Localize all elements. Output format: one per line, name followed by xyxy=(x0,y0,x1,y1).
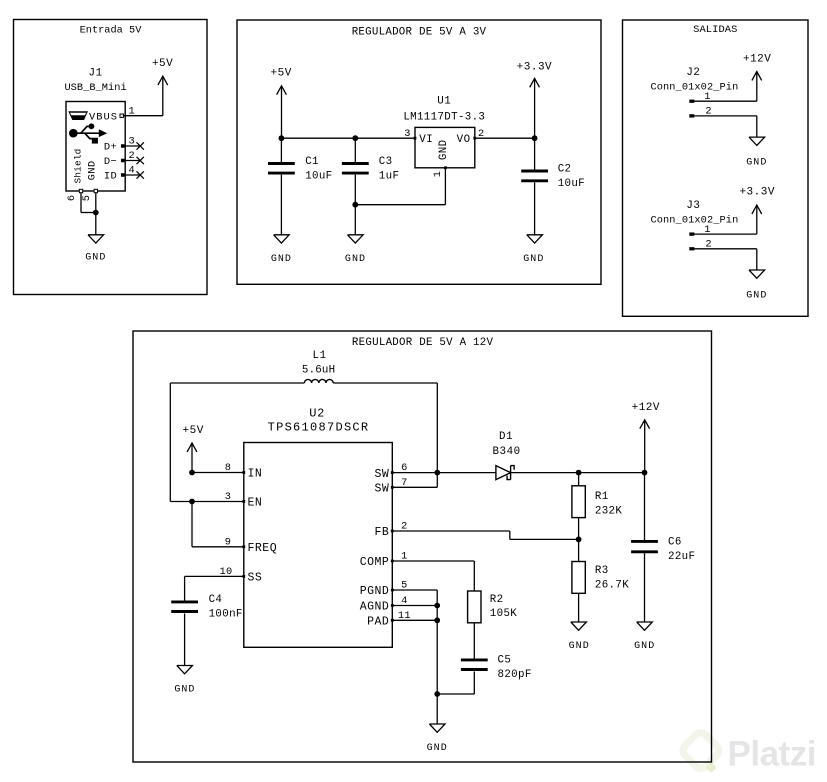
svg-text:J2: J2 xyxy=(686,67,700,79)
svg-text:+12V: +12V xyxy=(632,402,660,414)
svg-text:IN: IN xyxy=(248,468,263,481)
svg-text:GND: GND xyxy=(523,254,544,265)
svg-text:C1: C1 xyxy=(305,156,319,168)
svg-text:+12V: +12V xyxy=(743,53,771,65)
svg-text:Platzi: Platzi xyxy=(728,734,816,773)
svg-text:PGND: PGND xyxy=(360,585,390,598)
svg-text:U2: U2 xyxy=(309,407,325,421)
svg-text:R2: R2 xyxy=(490,594,504,606)
svg-text:GND: GND xyxy=(634,641,655,652)
svg-text:GND: GND xyxy=(345,254,366,265)
svg-text:5.6uH: 5.6uH xyxy=(302,364,335,376)
svg-text:9: 9 xyxy=(225,536,232,548)
svg-text:D+: D+ xyxy=(104,142,117,154)
svg-text:COMP: COMP xyxy=(360,556,390,569)
svg-text:C3: C3 xyxy=(379,156,393,168)
svg-text:+5V: +5V xyxy=(183,425,204,437)
svg-text:ID: ID xyxy=(104,171,117,183)
svg-text:GND: GND xyxy=(438,139,450,160)
svg-text:Entrada 5V: Entrada 5V xyxy=(80,25,143,37)
svg-text:VI: VI xyxy=(419,134,433,146)
svg-text:1uF: 1uF xyxy=(379,171,400,183)
svg-text:4: 4 xyxy=(129,165,136,177)
svg-text:VBUS: VBUS xyxy=(89,112,118,124)
svg-text:C5: C5 xyxy=(498,654,512,666)
svg-text:10: 10 xyxy=(219,566,232,578)
svg-text:2: 2 xyxy=(705,239,712,251)
svg-text:PAD: PAD xyxy=(367,616,389,629)
svg-text:1: 1 xyxy=(704,91,711,103)
svg-text:C2: C2 xyxy=(558,163,572,175)
svg-text:100nF: 100nF xyxy=(209,609,243,621)
svg-text:GND: GND xyxy=(746,157,767,168)
svg-text:REGULADOR DE 5V A 3V: REGULADOR DE 5V A 3V xyxy=(352,26,487,38)
svg-text:Shield: Shield xyxy=(73,149,84,184)
svg-text:105K: 105K xyxy=(490,608,517,620)
svg-text:R1: R1 xyxy=(595,491,609,503)
svg-text:SW: SW xyxy=(374,483,389,496)
svg-text:3: 3 xyxy=(404,128,411,140)
svg-text:SS: SS xyxy=(248,572,263,585)
svg-text:10uF: 10uF xyxy=(558,178,585,190)
svg-text:+3.3V: +3.3V xyxy=(517,62,553,74)
svg-text:3: 3 xyxy=(129,136,136,148)
svg-text:J1: J1 xyxy=(89,68,103,80)
svg-text:2: 2 xyxy=(478,128,485,140)
svg-text:D−: D− xyxy=(104,156,117,168)
svg-text:FB: FB xyxy=(374,526,389,539)
svg-text:REGULADOR DE 5V A 12V: REGULADOR DE 5V A 12V xyxy=(352,337,494,349)
svg-text:C6: C6 xyxy=(668,537,682,549)
svg-text:L1: L1 xyxy=(313,350,327,362)
svg-text:820pF: 820pF xyxy=(498,669,532,681)
svg-text:+5V: +5V xyxy=(152,58,173,70)
svg-text:1: 1 xyxy=(129,105,136,117)
svg-text:SALIDAS: SALIDAS xyxy=(693,24,737,36)
svg-text:R3: R3 xyxy=(595,565,609,577)
svg-text:8: 8 xyxy=(225,462,232,474)
svg-text:SW: SW xyxy=(374,468,389,481)
svg-text:GND: GND xyxy=(87,160,99,180)
svg-text:GND: GND xyxy=(569,641,590,652)
svg-text:+3.3V: +3.3V xyxy=(739,187,775,199)
svg-text:FREQ: FREQ xyxy=(248,542,278,555)
svg-text:GND: GND xyxy=(174,685,195,696)
svg-text:22uF: 22uF xyxy=(668,551,695,563)
svg-text:J3: J3 xyxy=(686,200,700,212)
svg-text:Conn_01x02_Pin: Conn_01x02_Pin xyxy=(650,214,738,226)
svg-text:USB_B_Mini: USB_B_Mini xyxy=(64,82,126,94)
svg-text:GND: GND xyxy=(746,290,767,301)
svg-text:LM1117DT-3.3: LM1117DT-3.3 xyxy=(403,111,485,123)
svg-text:AGND: AGND xyxy=(360,601,390,614)
svg-text:+5V: +5V xyxy=(271,68,292,80)
svg-text:U1: U1 xyxy=(437,95,451,107)
svg-text:6: 6 xyxy=(66,195,78,202)
svg-text:232K: 232K xyxy=(595,506,622,518)
svg-text:GND: GND xyxy=(271,254,292,265)
svg-text:EN: EN xyxy=(248,497,263,510)
svg-text:D1: D1 xyxy=(499,431,513,443)
svg-text:2: 2 xyxy=(129,150,136,162)
svg-text:TPS61087DSCR: TPS61087DSCR xyxy=(268,420,370,434)
svg-text:Conn_01x02_Pin: Conn_01x02_Pin xyxy=(650,81,738,93)
svg-text:GND: GND xyxy=(427,743,448,754)
svg-text:VO: VO xyxy=(457,134,471,146)
svg-text:10uF: 10uF xyxy=(305,171,332,183)
svg-text:1: 1 xyxy=(432,171,444,178)
svg-text:5: 5 xyxy=(81,195,93,202)
svg-text:GND: GND xyxy=(85,253,106,264)
svg-text:B340: B340 xyxy=(493,446,521,458)
svg-text:1: 1 xyxy=(704,224,711,236)
svg-text:2: 2 xyxy=(705,106,712,118)
svg-text:3: 3 xyxy=(225,491,232,503)
svg-text:26.7K: 26.7K xyxy=(595,580,629,592)
svg-text:C4: C4 xyxy=(209,594,223,606)
